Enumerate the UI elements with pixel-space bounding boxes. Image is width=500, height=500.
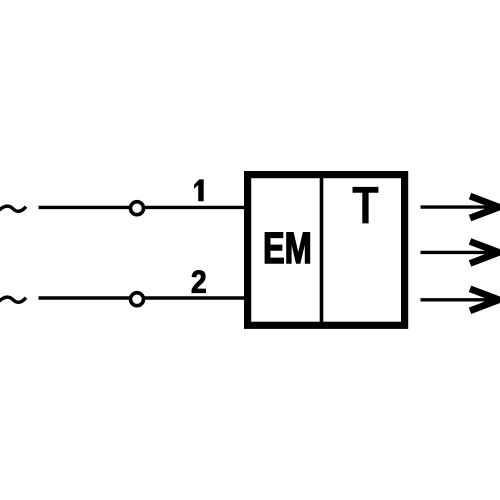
wire (line 1 to box) [39, 206, 248, 209]
label 1 [194, 179, 204, 201]
output arrow 3 shaft [421, 298, 499, 301]
wire (line 2 to box) [39, 296, 248, 299]
block U1 outline (EM transducer) [248, 175, 405, 326]
output arrow 2 shaft [421, 251, 499, 254]
terminal circle (line 2) [131, 293, 144, 306]
output arrow 3 head [470, 289, 499, 311]
label EM [265, 233, 283, 264]
block divider [320, 174, 324, 326]
terminal circle (line 1) [131, 202, 144, 215]
AC source symbol ~ (line 1) [0, 206, 26, 211]
output arrow 1 head [470, 196, 499, 218]
label T [353, 187, 379, 224]
output arrow 1 shaft [421, 205, 499, 208]
AC source symbol ~ (line 2) [0, 297, 26, 302]
label 2 [192, 270, 206, 292]
output arrow 2 head [470, 241, 499, 263]
